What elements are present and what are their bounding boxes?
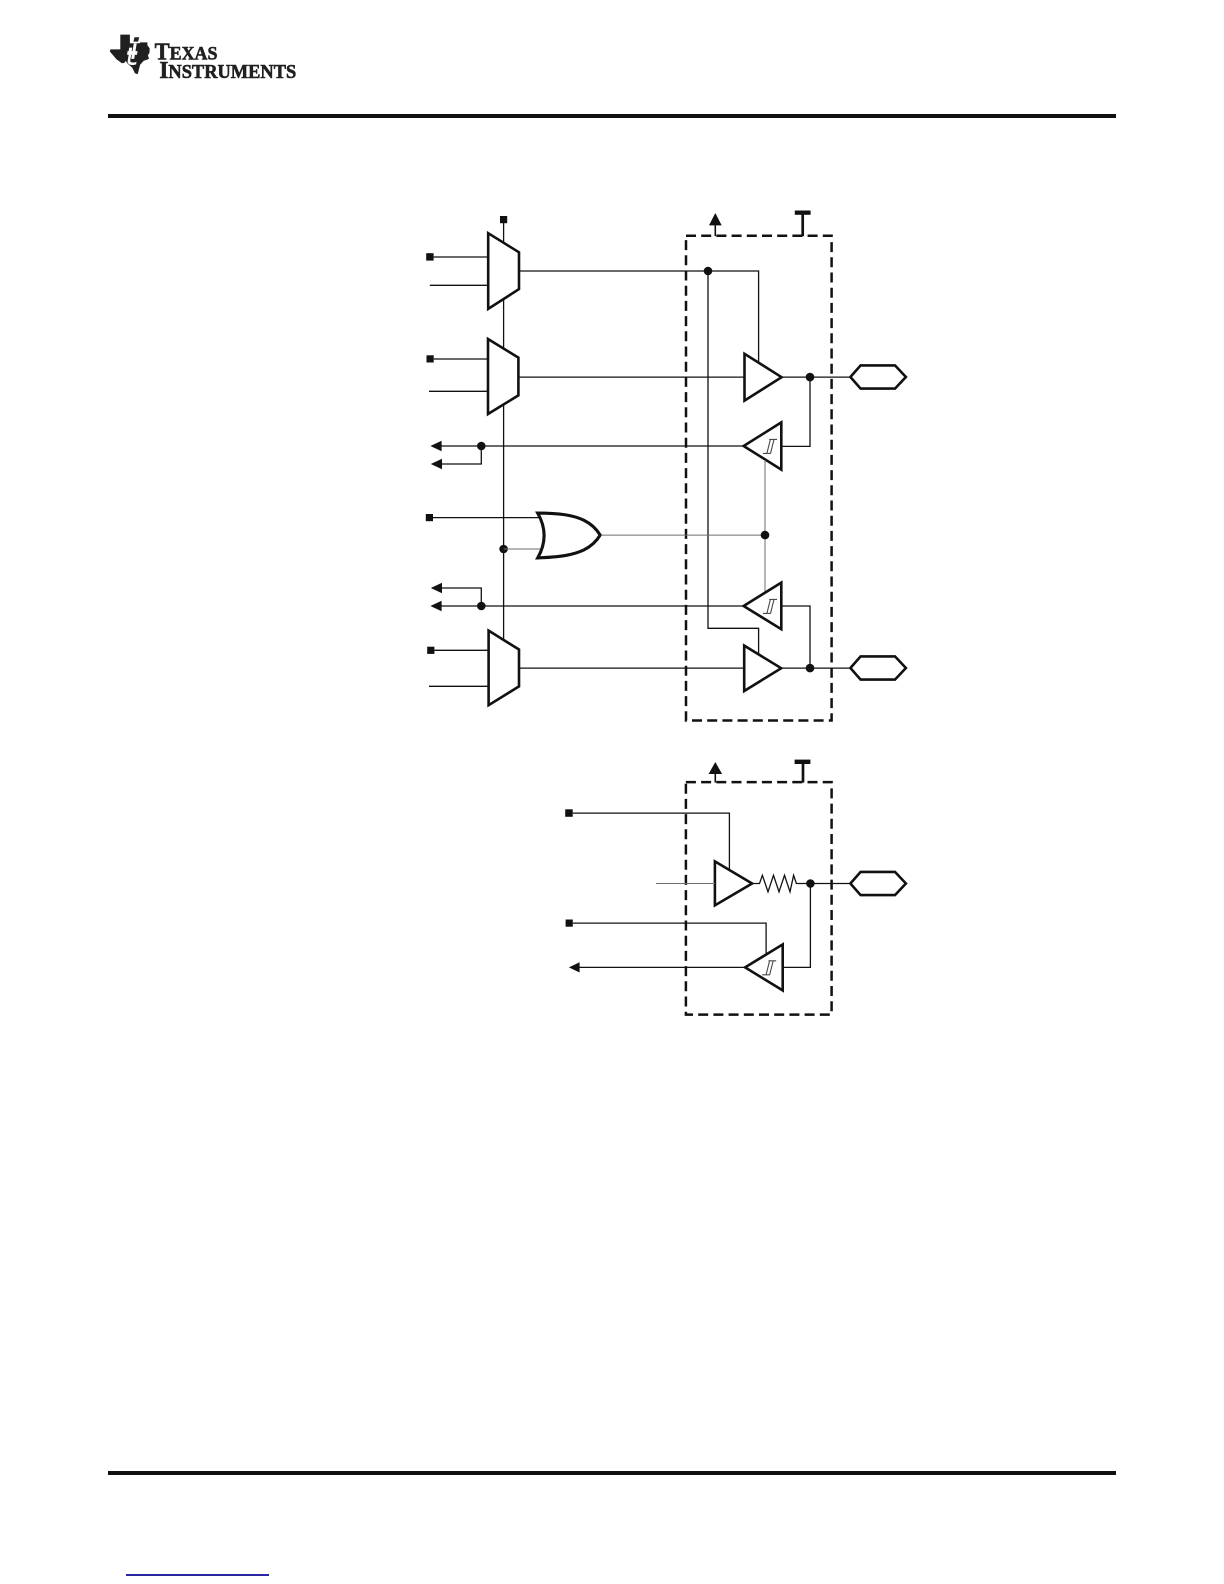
wire: M1 output to buffer U1 enable (519, 271, 759, 363)
buffer U5 (715, 861, 752, 905)
junction on U2 output (806, 664, 815, 673)
wire: schmitt enable vertical (thin) (764, 460, 766, 592)
junction on select chain at OR input (499, 545, 508, 554)
wire: select chain M2 to M3 (503, 404, 505, 641)
GND symbol (795, 211, 811, 237)
wire: M2 input A (434, 358, 488, 360)
wire: select chain to OR gate input B (thin) (504, 548, 540, 550)
Texas state mark (110, 35, 150, 75)
wire: enable 2 to schmitt U6 (573, 923, 766, 955)
wire: pad node to schmitt U3 input (781, 377, 810, 446)
wire: U2 output to pad D- (781, 667, 850, 669)
wire: long vertical from M1 output junction to buffer U2 enable (708, 271, 759, 655)
wire: U6 output to left (579, 966, 745, 968)
node: M3 input square (427, 647, 434, 654)
wire: select stem to mux M1 (503, 223, 505, 244)
wire: M3 output to buffer U2 input (519, 667, 744, 669)
wire: branch to arrow 3 (441, 588, 481, 606)
hysteresis symbol U6 (762, 961, 776, 975)
wire: U1 output to pad D+ (782, 376, 851, 378)
hysteresis symbol U3 (763, 439, 777, 453)
pad D- (hexagon) (850, 656, 906, 679)
OR gate G1 (538, 513, 601, 558)
node: enable input square (565, 809, 573, 817)
node: M1 input square (426, 253, 433, 260)
schmitt buffer U4 (744, 583, 782, 630)
wire: OR gate input A (433, 517, 539, 519)
arrowhead: receive output 1 (430, 441, 441, 451)
junction on U3 output (477, 442, 486, 451)
wire: M1 input B (430, 284, 488, 286)
footer link underline (126, 1574, 269, 1576)
node: OR input square (426, 514, 433, 521)
VCC arrow (709, 213, 722, 236)
schmitt buffer U3 (744, 422, 782, 469)
wire: branch to arrow 2 (441, 446, 481, 464)
arrowhead: receive output 2 (431, 459, 442, 469)
arrowhead: receive output 3 (431, 583, 442, 593)
resistor R1 (752, 875, 850, 892)
TI logo (0, 0, 320, 100)
power block boundary 2 (dashed) (686, 782, 832, 1015)
schmitt buffer U6 (745, 944, 783, 990)
wire: M1 input A (434, 256, 488, 258)
junction on U4 output (477, 602, 486, 611)
wire: select chain M1 to M2 (503, 299, 505, 349)
wire: M2 input B (429, 390, 488, 392)
wire: M2 output to buffer U1 input (518, 376, 744, 378)
junction on M1 output (704, 267, 713, 276)
wire: M3 input A (434, 649, 488, 651)
wire: U3 output to left (441, 445, 744, 447)
wire: M3 input B (429, 685, 488, 687)
pad (hexagon 3) (850, 872, 906, 895)
GND symbol 2 (795, 760, 811, 783)
wire: U5 input stub (thin) (656, 883, 715, 885)
wire: OR output to schmitt enables (thin) (601, 534, 765, 536)
arrowhead: receive output 5 (569, 962, 580, 972)
mux M3 (489, 631, 519, 706)
wire: pad node 3 to schmitt U6 input (783, 884, 811, 968)
power block boundary (dashed) (686, 236, 832, 721)
arrowhead: receive output 4 (430, 601, 441, 611)
mux M2 (488, 339, 518, 414)
wire: U4 output to left (441, 605, 744, 607)
footer rule (108, 1471, 1116, 1475)
node: M2 input square (427, 355, 434, 362)
pad D+ (hexagon) (850, 365, 906, 388)
junction on pad node 3 (806, 879, 815, 888)
junction on U1 output (806, 373, 815, 382)
header rule (108, 114, 1116, 118)
VCC arrow 2 (709, 762, 723, 783)
buffer U1 (tri-state) (745, 354, 782, 401)
junction of OR output and enable vertical (761, 531, 770, 540)
hysteresis symbol U4 (763, 599, 777, 613)
node: enable input square 2 (566, 920, 573, 927)
wire: enable to buffer U5 (573, 813, 730, 870)
buffer U2 (tri-state) (744, 646, 781, 691)
wire: pad node 2 to schmitt U4 input (781, 606, 810, 668)
node: select input square (500, 216, 507, 223)
mux M1 (488, 233, 519, 309)
